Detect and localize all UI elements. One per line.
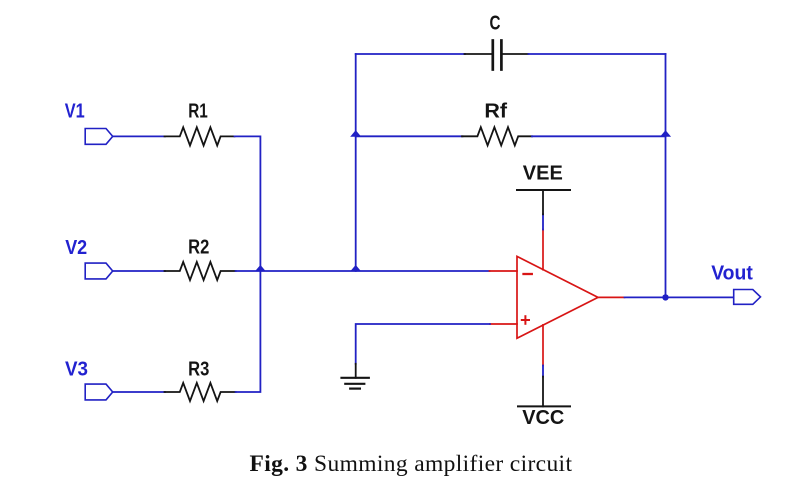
svg-text:Vout: Vout: [711, 261, 753, 284]
svg-text:V2: V2: [65, 236, 87, 259]
svg-text:VCC: VCC: [522, 406, 564, 429]
svg-text:R3: R3: [188, 358, 209, 381]
op-amp U1: [517, 230, 598, 366]
op-amp U1 inverting pin: [490, 270, 518, 272]
wire R1 to node A (corner): [235, 136, 261, 271]
ground: [342, 364, 369, 389]
svg-text:R2: R2: [188, 236, 209, 259]
svg-text:VEE: VEE: [523, 162, 563, 185]
svg-text:V3: V3: [65, 358, 88, 381]
junction right Rf tap: [661, 131, 670, 136]
wire V2 to R2: [113, 270, 165, 272]
op-amp U1 non-inverting pin: [490, 323, 517, 325]
capacitor C: [465, 41, 529, 70]
wire R3 to node A (corner up): [236, 271, 261, 392]
port V2: [85, 263, 113, 279]
wire top branch left (to C): [356, 53, 465, 55]
power VEE: [517, 190, 570, 214]
wire ground to non-inverting input: [356, 324, 490, 364]
svg-text:V1: V1: [65, 99, 85, 122]
svg-text:Rf: Rf: [484, 100, 507, 123]
wire R2 to op-amp inverting input: [236, 270, 490, 272]
wire right feedback vertical: [665, 54, 667, 297]
caption: [250, 453, 573, 477]
resistor Rf: [462, 127, 532, 145]
op-amp output pin: [598, 296, 625, 298]
wire output to Vout: [625, 296, 734, 298]
wire Rf branch right: [532, 135, 666, 137]
resistor R2: [165, 262, 236, 280]
port V3: [85, 384, 113, 400]
wire VCC pin stub: [542, 366, 544, 377]
svg-text:C: C: [490, 11, 501, 34]
junction output node: [662, 294, 668, 300]
junction node A (summing node): [256, 266, 265, 271]
wire V1 to R1: [113, 135, 165, 137]
resistor R1: [165, 127, 235, 145]
port V1: [85, 129, 113, 145]
wire left feedback vertical: [355, 54, 357, 271]
power VCC: [518, 377, 570, 407]
port Vout: [734, 290, 761, 305]
wire VEE pin stub: [542, 214, 544, 229]
resistor R3: [165, 383, 236, 401]
junction left Rf tap: [351, 131, 360, 136]
wire top branch right (C to right vertical): [529, 53, 666, 55]
svg-text:R1: R1: [188, 100, 208, 123]
wire V3 to R3: [113, 391, 165, 393]
junction node B (left feedback tap): [351, 266, 360, 271]
wire Rf branch left: [356, 135, 463, 137]
